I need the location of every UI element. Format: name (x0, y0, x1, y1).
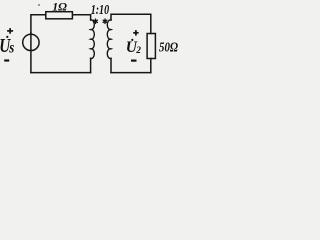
wire right winding top to load resistor (111, 14, 151, 33)
polarity dot left (asterisk) (94, 19, 98, 23)
svg-text:2: 2 (135, 46, 141, 56)
wire bottom primary (31, 72, 91, 74)
svg-text:1:10: 1:10 (91, 2, 110, 17)
wire 50ohm bottom (150, 59, 152, 73)
wire source vertical through circle (30, 33, 32, 73)
polarity dot right (asterisk) (103, 19, 107, 23)
wire top-left from source to resistor (31, 15, 45, 33)
label + of U2 (133, 30, 138, 35)
wire bottom secondary (111, 72, 151, 74)
label + of source (7, 28, 13, 34)
wire left winding bottom to bottom wire (90, 58, 92, 72)
svg-text:1Ω: 1Ω (52, 0, 67, 13)
resistor R2 50ohm box (147, 34, 155, 59)
wire right winding bottom to bottom wire (110, 58, 112, 72)
label - of U2 (131, 59, 137, 61)
transformer right winding (107, 20, 111, 59)
resistor R1 1ohm box (46, 12, 73, 19)
scan speck (38, 4, 40, 6)
label - of source (4, 59, 9, 61)
label U2 dot (131, 39, 133, 41)
voltage source Us circle (23, 34, 39, 50)
svg-text:50Ω: 50Ω (159, 39, 178, 54)
wire resistor to transformer primary (73, 15, 91, 20)
label Us dot (6, 36, 8, 38)
transformer left winding (91, 20, 95, 59)
svg-text:s: s (8, 39, 14, 57)
